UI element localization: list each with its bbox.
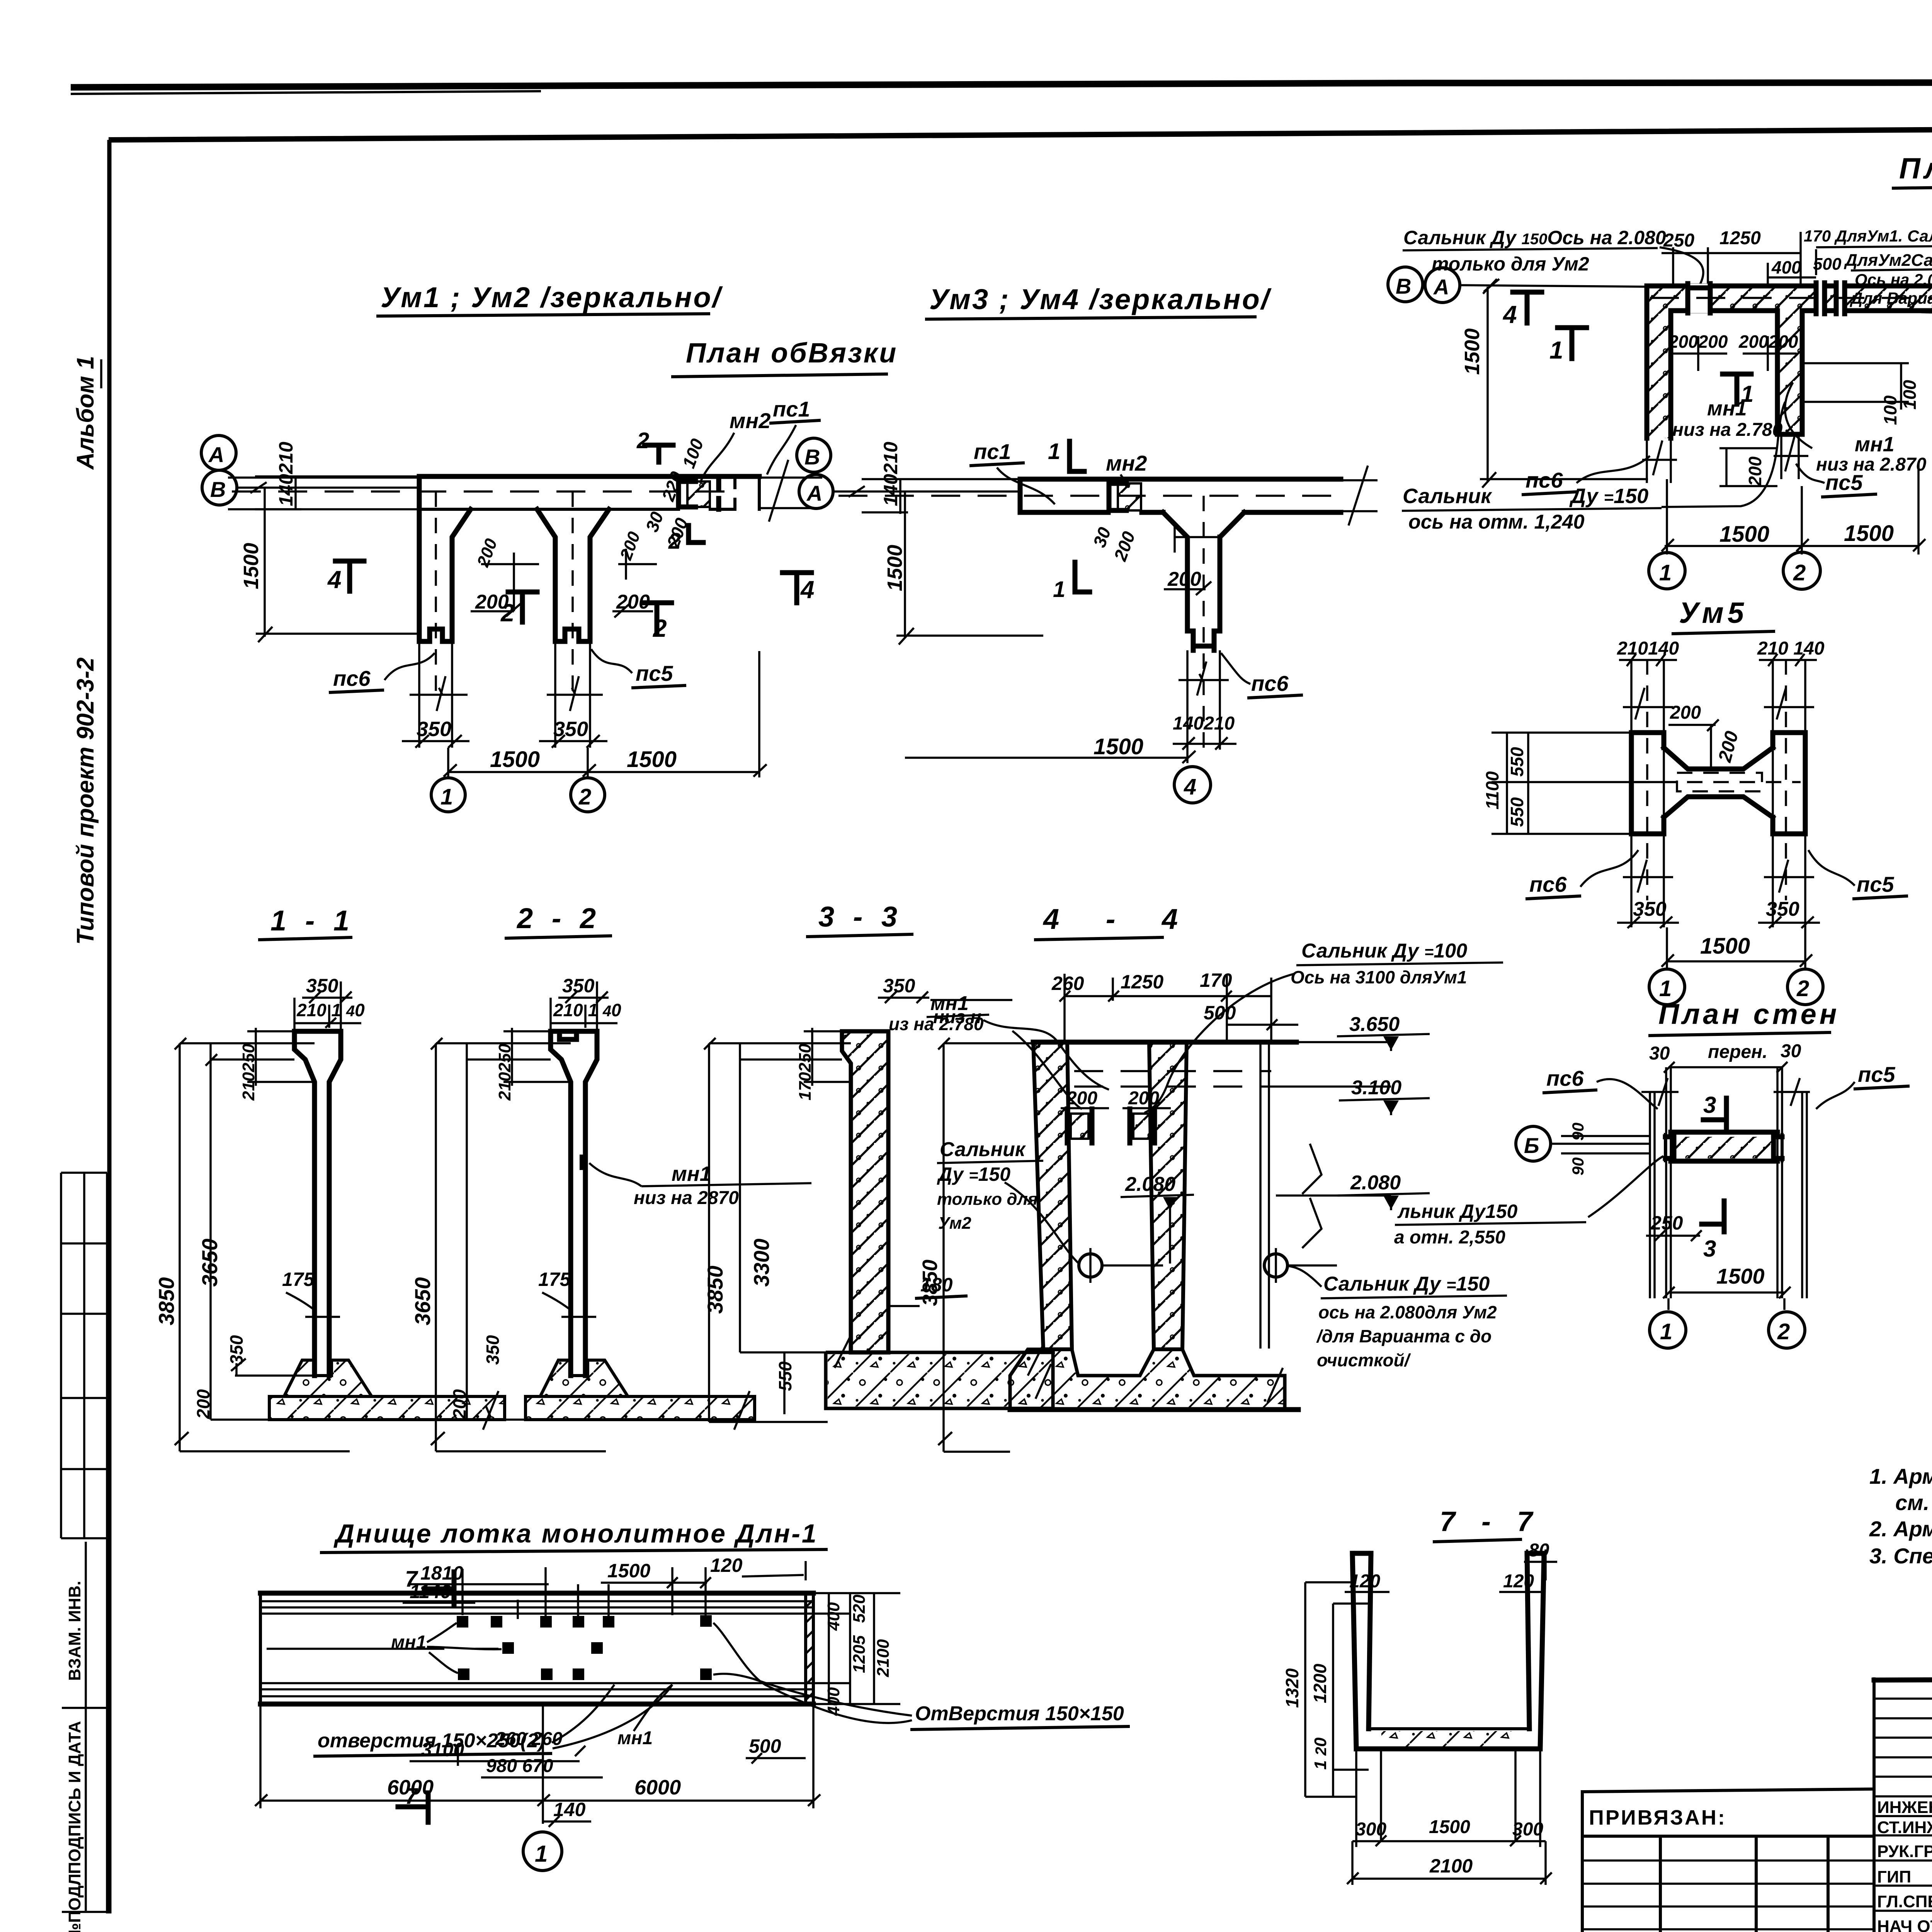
svg-text:200: 200 <box>449 1389 469 1419</box>
U channel walls <box>1352 1553 1371 1749</box>
axis circle B <box>1516 1126 1551 1161</box>
svg-text:Сальник: Сальник <box>1403 485 1492 508</box>
svg-text:3850: 3850 <box>918 1260 942 1306</box>
svg-text:1: 1 <box>1659 560 1672 585</box>
svg-text:План стен: План стен <box>1899 152 1932 185</box>
svg-text:Ду =150: Ду =150 <box>1569 485 1648 508</box>
footing hatched <box>540 1360 628 1396</box>
svg-text:План стен: План стен <box>1658 998 1840 1030</box>
slab long rectangle top band <box>260 1591 813 1596</box>
wall hatched band <box>1674 1137 1774 1158</box>
sleeve 2 hatched <box>1133 1114 1151 1139</box>
svg-text:ГЛ.СПЕЦ.: ГЛ.СПЕЦ. <box>1877 1892 1932 1911</box>
svg-text:А: А <box>1433 275 1449 299</box>
svg-text:пс5: пс5 <box>1825 470 1863 495</box>
svg-text:200: 200 <box>475 591 509 613</box>
svg-text:2 - 2: 2 - 2 <box>516 902 601 934</box>
Um5 left column lines <box>1623 659 1673 900</box>
axis circle 1 <box>523 1832 562 1871</box>
svg-text:1: 1 <box>1660 1319 1672 1344</box>
svg-text:2. Армирование монолитного д: 2. Армирование монолитного днища лотка с… <box>1869 1517 1932 1541</box>
extension verticals <box>463 1567 706 1627</box>
svg-text:4 - 4: 4 - 4 <box>1043 903 1197 935</box>
svg-text:6000: 6000 <box>634 1776 681 1799</box>
svg-text:Б: Б <box>1524 1133 1539 1158</box>
svg-text:200: 200 <box>1128 1088 1159 1109</box>
svg-text:300: 300 <box>1512 1819 1543 1840</box>
svg-text:низ на 2.780: низ на 2.780 <box>1672 420 1783 440</box>
svg-text:2: 2 <box>1796 976 1809 1001</box>
svg-text:1500: 1500 <box>883 545 906 591</box>
left attribute column boxes <box>106 1173 108 1913</box>
axis circle 1 <box>1649 969 1685 1005</box>
svg-text:4: 4 <box>1184 774 1196 799</box>
svg-text:550: 550 <box>1507 797 1527 827</box>
axis circle A <box>201 435 236 470</box>
svg-text:4: 4 <box>1502 301 1517 328</box>
svg-text:только для: только для <box>937 1190 1038 1209</box>
anchor squares row2 <box>502 1642 514 1654</box>
anchor squares row3 <box>458 1668 469 1680</box>
frame left <box>107 140 112 1913</box>
svg-text:210 1 40: 210 1 40 <box>553 1000 621 1020</box>
svg-text:А: А <box>208 442 224 467</box>
svg-text:1500: 1500 <box>1700 934 1750 959</box>
svg-text:очисткой/: очисткой/ <box>1317 1350 1411 1370</box>
svg-text:3 - 3: 3 - 3 <box>818 901 903 933</box>
svg-text:1500: 1500 <box>1716 1264 1765 1288</box>
left leg of plan <box>452 509 471 627</box>
svg-text:210 1 40: 210 1 40 <box>296 1000 365 1020</box>
svg-text:7 - 7: 7 - 7 <box>1440 1506 1542 1537</box>
svg-text:2: 2 <box>578 784 591 810</box>
svg-text:мн1: мн1 <box>391 1632 426 1653</box>
bottom slab <box>1356 1747 1540 1752</box>
wall stub verticals <box>1666 1067 1782 1298</box>
svg-text:500: 500 <box>1204 1002 1236 1024</box>
svg-text:400: 400 <box>824 1602 843 1631</box>
svg-text:ГИП: ГИП <box>1877 1867 1911 1886</box>
svg-text:210140: 210140 <box>1617 638 1679 659</box>
footing slab <box>826 1352 1055 1408</box>
svg-text:100: 100 <box>1880 395 1900 425</box>
double tick sleeves right <box>1816 283 1825 314</box>
signature table grid <box>1874 1679 1932 1932</box>
svg-text:200: 200 <box>1714 729 1742 764</box>
svg-text:200: 200 <box>1167 568 1201 590</box>
svg-text:350: 350 <box>883 975 915 997</box>
svg-text:3650: 3650 <box>410 1277 435 1325</box>
svg-text:1140: 1140 <box>410 1581 451 1602</box>
sleeve hatched <box>1118 483 1141 510</box>
web dashed detail <box>1634 773 1801 791</box>
dashed leg centerlines <box>435 492 437 696</box>
slab bottom band <box>260 1683 813 1696</box>
svg-text:см. на листе КЖ-10;11: см. на листе КЖ-10;11 <box>1895 1490 1932 1515</box>
svg-text:170 ДляУм1. СальникД у 100 Ось: 170 ДляУм1. СальникД у 100 Ось на 3.100 <box>1804 227 1932 245</box>
axis circle 2 <box>571 778 605 812</box>
svg-text:ДляУм2Сальник Ду = 150: ДляУм2Сальник Ду = 150 <box>1844 251 1932 270</box>
sleeve 1 hatched <box>1071 1114 1088 1139</box>
centerline <box>267 1648 498 1650</box>
svg-text:пс6: пс6 <box>1529 872 1567 896</box>
svg-text:350: 350 <box>483 1335 503 1365</box>
svg-text:Днище лотка монолитное Длн-1: Днище лотка монолитное Длн-1 <box>333 1519 818 1548</box>
svg-text:2: 2 <box>653 614 667 642</box>
svg-text:1: 1 <box>535 1841 548 1867</box>
svg-text:В: В <box>804 445 820 469</box>
svg-text:1: 1 <box>440 784 453 810</box>
gland circle right <box>1264 1254 1287 1277</box>
svg-text:1500: 1500 <box>1429 1817 1470 1837</box>
svg-text:260 260: 260 260 <box>495 1729 563 1749</box>
axis circle V <box>202 470 237 505</box>
axis circle 1 <box>1649 553 1685 589</box>
svg-text:пс6: пс6 <box>333 666 371 690</box>
svg-text:200: 200 <box>616 529 644 563</box>
svg-text:пс5: пс5 <box>1858 1062 1895 1087</box>
svg-text:140210: 140210 <box>1173 713 1235 734</box>
svg-text:30: 30 <box>1781 1041 1801 1061</box>
svg-text:4: 4 <box>800 576 815 604</box>
svg-text:200: 200 <box>193 1389 213 1419</box>
svg-text:пс1: пс1 <box>974 439 1011 464</box>
svg-text:100: 100 <box>679 436 707 471</box>
svg-text:мн2: мн2 <box>730 408 770 433</box>
left dims <box>704 1038 851 1422</box>
svg-text:мн1: мн1 <box>1855 433 1895 456</box>
right wall hatched <box>1149 1042 1187 1349</box>
svg-text:1205: 1205 <box>850 1635 869 1673</box>
axis circle A <box>1425 268 1460 303</box>
section mark 2 top <box>645 445 673 462</box>
section mark 3 bottom <box>1702 1201 1724 1232</box>
frame top <box>109 125 1932 140</box>
svg-text:1 - 1: 1 - 1 <box>270 905 355 937</box>
svg-text:3.650: 3.650 <box>1349 1013 1400 1036</box>
svg-text:/для Варианта с до: /для Варианта с до <box>1316 1326 1492 1346</box>
svg-text:250: 250 <box>1650 1212 1683 1234</box>
svg-text:В: В <box>1396 274 1411 298</box>
svg-text:3300: 3300 <box>749 1238 774 1287</box>
svg-text:1500: 1500 <box>1719 522 1769 547</box>
svg-text:2: 2 <box>1793 560 1806 585</box>
svg-text:2100: 2100 <box>1429 1855 1473 1877</box>
Um5 left flange <box>1631 733 1664 834</box>
axis circle 2 <box>1787 969 1823 1005</box>
svg-text:1 20: 1 20 <box>1311 1737 1330 1770</box>
inner wall vertical hatched <box>1777 311 1802 434</box>
svg-text:пс6: пс6 <box>1526 468 1563 492</box>
wall 2-2 profile <box>551 1031 597 1376</box>
svg-text:350: 350 <box>553 718 588 741</box>
svg-text:140210: 140210 <box>275 442 297 506</box>
svg-text:пс1: пс1 <box>773 397 810 421</box>
svg-text:Ось на 3100 дляУм1: Ось на 3100 дляУм1 <box>1291 967 1467 987</box>
svg-text:3850: 3850 <box>703 1265 727 1314</box>
svg-text:мн1: мн1 <box>672 1162 711 1185</box>
svg-text:Ум5: Ум5 <box>1679 597 1748 629</box>
svg-text:30: 30 <box>642 509 668 534</box>
axis circle 1 <box>1650 1312 1686 1348</box>
sleeve MH2 hatched <box>687 481 710 507</box>
leg break marks <box>410 641 603 715</box>
svg-text:Ум3 ; Ум4 /зеркально/: Ум3 ; Ум4 /зеркально/ <box>929 283 1272 315</box>
svg-text:1100: 1100 <box>1482 771 1502 810</box>
gland circle left <box>1079 1254 1102 1277</box>
svg-text:1. Армирование монолитных уч: 1. Армирование монолитных участков и при… <box>1869 1464 1932 1488</box>
dashed band axis <box>1650 297 1932 299</box>
svg-text:НАЧ ОТЛ: НАЧ ОТЛ <box>1877 1917 1932 1932</box>
svg-text:ось на отм. 1,240: ось на отм. 1,240 <box>1408 511 1585 533</box>
svg-text:200: 200 <box>1110 529 1139 564</box>
svg-text:ПОДПИСЬ И ДАТА: ПОДПИСЬ И ДАТА <box>65 1721 84 1874</box>
footing hatched <box>1010 1349 1285 1410</box>
left wall hatched <box>1033 1042 1072 1349</box>
svg-text:Сальник: Сальник <box>940 1138 1026 1161</box>
svg-text:1500: 1500 <box>607 1560 650 1582</box>
svg-text:ИНЖЕНЕР: ИНЖЕНЕР <box>1877 1798 1932 1817</box>
svg-text:Сальник Ду =150: Сальник Ду =150 <box>1323 1273 1490 1295</box>
svg-text:2: 2 <box>1777 1319 1790 1344</box>
svg-text:А: А <box>806 481 822 505</box>
anchor squares row1 <box>457 1616 468 1628</box>
svg-text:1250: 1250 <box>1719 228 1761 248</box>
svg-text:Типовой проект 902-3-2: Типовой проект 902-3-2 <box>72 657 99 945</box>
svg-text:мн1: мн1 <box>1707 397 1747 420</box>
svg-text:из на 2.780: из на 2.780 <box>889 1014 984 1034</box>
axis circle 4 <box>1174 767 1211 803</box>
svg-text:льник Ду150: льник Ду150 <box>1397 1201 1518 1222</box>
mn1 anchor dot <box>580 1155 587 1170</box>
svg-text:500: 500 <box>749 1735 781 1757</box>
axis circle 2 <box>1769 1312 1805 1348</box>
svg-text:ИНВ. №ПОДЛ: ИНВ. №ПОДЛ <box>65 1874 84 1932</box>
svg-text:1500: 1500 <box>627 747 677 772</box>
svg-text:низ на 2870: низ на 2870 <box>634 1188 739 1208</box>
svg-text:Ду =150: Ду =150 <box>937 1163 1010 1185</box>
Um5 right flange <box>1773 733 1805 834</box>
svg-text:200: 200 <box>616 591 650 613</box>
svg-text:500: 500 <box>1813 255 1842 274</box>
axis circle V <box>797 438 831 472</box>
svg-text:мн1: мн1 <box>617 1728 653 1748</box>
break marks <box>1623 860 1814 893</box>
privyazan table <box>1582 1789 1874 1932</box>
axis extension line <box>237 486 419 489</box>
dashed level lines <box>1074 1071 1271 1087</box>
top slab line <box>1033 1040 1296 1045</box>
svg-text:175: 175 <box>538 1269 571 1290</box>
svg-text:а отн. 2,550: а отн. 2,550 <box>1394 1227 1505 1248</box>
svg-text:1500: 1500 <box>1844 521 1894 546</box>
leg cap notch <box>1187 631 1220 650</box>
svg-text:2100: 2100 <box>874 1639 893 1677</box>
svg-text:В: В <box>210 477 226 502</box>
svg-text:пс5: пс5 <box>636 661 673 685</box>
top rule <box>71 82 1932 87</box>
dashed centerlines <box>838 495 1337 497</box>
svg-text:175: 175 <box>282 1269 315 1290</box>
svg-text:Альбом 1: Альбом 1 <box>72 356 99 470</box>
svg-text:1320: 1320 <box>1282 1668 1302 1708</box>
svg-text:1500: 1500 <box>1461 328 1484 375</box>
svg-text:ВЗАМ. ИНВ.: ВЗАМ. ИНВ. <box>65 1581 84 1681</box>
left wall vertical hatched <box>1647 311 1671 438</box>
slab right edge hatched <box>806 1593 813 1704</box>
svg-text:1: 1 <box>1659 976 1672 1001</box>
Um5 right column lines <box>1764 659 1814 900</box>
svg-text:30: 30 <box>1089 524 1115 550</box>
svg-text:2.080: 2.080 <box>1350 1172 1401 1194</box>
leg break and extension <box>1179 650 1229 734</box>
svg-text:200: 200 <box>1066 1088 1097 1109</box>
svg-text:250: 250 <box>1663 230 1694 251</box>
svg-text:3: 3 <box>1703 1092 1716 1118</box>
slab left edge <box>259 1593 262 1704</box>
svg-text:90: 90 <box>1569 1122 1587 1141</box>
inner leg pair <box>537 509 555 627</box>
svg-text:350: 350 <box>1766 898 1799 920</box>
svg-text:100: 100 <box>1900 380 1920 410</box>
section mark 2 lower <box>689 526 703 543</box>
leader curve to sleeve <box>1660 247 1703 288</box>
left dims <box>431 1038 606 1451</box>
svg-text:ОтВерстия 150×150: ОтВерстия 150×150 <box>915 1702 1124 1725</box>
svg-text:400: 400 <box>1771 257 1801 277</box>
svg-text:260: 260 <box>1051 973 1084 994</box>
svg-text:210 140: 210 140 <box>1757 638 1825 659</box>
wall 3-3 hatched <box>842 1031 888 1352</box>
axis circle V <box>1388 267 1423 302</box>
wall band horizontal hatched <box>1647 286 1932 311</box>
svg-text:4: 4 <box>327 566 342 594</box>
svg-text:3650: 3650 <box>197 1238 222 1287</box>
wall band <box>1020 479 1341 631</box>
svg-text:РУК.ГР.: РУК.ГР. <box>1877 1842 1932 1861</box>
svg-text:3850: 3850 <box>154 1277 179 1325</box>
axis circle A <box>799 474 833 509</box>
svg-text:пс5: пс5 <box>1857 872 1894 896</box>
svg-text:350: 350 <box>306 975 338 997</box>
svg-text:3.100: 3.100 <box>1351 1077 1401 1099</box>
svg-text:1500: 1500 <box>240 543 263 589</box>
svg-text:2: 2 <box>636 428 649 453</box>
svg-text:мн2: мн2 <box>1106 451 1147 475</box>
wall 1-1 profile <box>294 1031 341 1376</box>
svg-text:550: 550 <box>1507 747 1527 777</box>
svg-text:1: 1 <box>1048 439 1060 464</box>
svg-text:2: 2 <box>668 529 681 554</box>
svg-text:3. Спецификация и Выборку ар: 3. Спецификация и Выборку арматуры см. н… <box>1869 1544 1932 1568</box>
svg-text:1500: 1500 <box>490 747 540 772</box>
wall top band <box>419 474 759 479</box>
svg-text:3: 3 <box>1703 1236 1716 1262</box>
svg-text:перен.: перен. <box>1708 1042 1767 1062</box>
svg-text:1: 1 <box>1053 577 1065 602</box>
svg-text:1500: 1500 <box>1094 734 1143 759</box>
svg-text:План обВязки: План обВязки <box>686 338 898 369</box>
axis circle 1 <box>431 778 465 812</box>
dashed axis line in band <box>232 490 730 493</box>
left dim lines <box>175 1038 350 1451</box>
svg-text:120: 120 <box>710 1554 743 1576</box>
T1 mark <box>1723 374 1751 404</box>
svg-text:350: 350 <box>417 718 451 741</box>
svg-text:350: 350 <box>562 975 595 997</box>
axis extension <box>833 486 1020 497</box>
svg-text:90: 90 <box>1569 1157 1587 1175</box>
svg-text:Сальник Ду =100: Сальник Ду =100 <box>1301 940 1467 962</box>
svg-text:520: 520 <box>850 1594 869 1623</box>
svg-text:ПРИВЯЗАН:: ПРИВЯЗАН: <box>1589 1806 1726 1829</box>
Um5 web <box>1664 748 1773 817</box>
svg-text:Сальник Ду 150Ось на 2.080: Сальник Ду 150Ось на 2.080 <box>1403 227 1666 248</box>
svg-text:2.080: 2.080 <box>1125 1173 1175 1196</box>
axis circle 2 <box>1783 552 1820 589</box>
svg-text:1: 1 <box>1549 336 1563 364</box>
svg-text:1250: 1250 <box>1121 971 1163 993</box>
svg-text:пс6: пс6 <box>1546 1066 1584 1090</box>
svg-text:Ум1 ; Ум2 /зеркально/: Ум1 ; Ум2 /зеркально/ <box>381 281 723 313</box>
band right portion and break <box>735 476 759 509</box>
svg-text:ось на 2.080для Ум2: ось на 2.080для Ум2 <box>1318 1302 1497 1322</box>
svg-text:30: 30 <box>1649 1043 1670 1064</box>
right thin wall lines <box>1260 1042 1269 1349</box>
extension to wall <box>1460 279 1646 292</box>
svg-text:1200: 1200 <box>1310 1663 1330 1703</box>
svg-text:200: 200 <box>1745 456 1765 486</box>
svg-text:СТ.ИНЖ.: СТ.ИНЖ. <box>1877 1818 1932 1837</box>
sleeve gap white <box>1688 284 1710 313</box>
svg-text:пс6: пс6 <box>1251 671 1289 696</box>
footing hatched <box>284 1360 372 1396</box>
svg-text:200: 200 <box>1670 702 1701 723</box>
svg-text:мн1: мн1 <box>930 992 969 1015</box>
